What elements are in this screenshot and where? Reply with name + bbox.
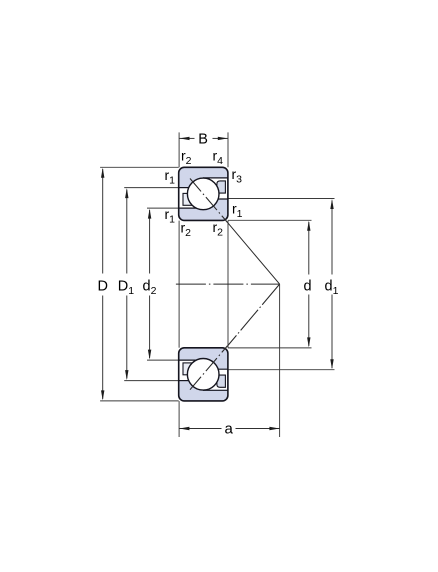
- B extension line right (upper): [227, 132, 229, 167]
- D1 extension line top: [124, 187, 179, 189]
- d dimension line: [308, 222, 310, 275]
- D extension line top: [100, 166, 179, 168]
- B extension line left (upper): [178, 132, 180, 167]
- a dimension line: [179, 428, 221, 430]
- D1 arrows: [125, 188, 128, 198]
- left face extension line between bearings: [178, 221, 180, 348]
- right face extension line between bearings: [227, 221, 229, 348]
- bottom contact line: apex to lower bearing (dash-dot): [228, 284, 280, 345]
- B dimension line: [179, 137, 194, 139]
- D dimension line: [102, 169, 104, 274]
- apex extension line down to a dim: [279, 284, 281, 437]
- d2 extension line bottom: [147, 359, 179, 361]
- d extension line bottom: [228, 347, 312, 349]
- D arrows: [101, 168, 104, 178]
- d2 arrows: [148, 209, 151, 219]
- D1 extension line bottom: [124, 380, 179, 382]
- svg-text:D: D: [98, 278, 108, 294]
- svg-text:a: a: [225, 421, 234, 438]
- top contact line: box corner to apex (solid): [228, 223, 280, 285]
- d extension line top: [228, 219, 312, 221]
- d1 dimension line: [331, 201, 333, 275]
- d2 extension line top: [147, 207, 179, 209]
- d1 extension line bottom: [228, 369, 335, 371]
- B arrows: [180, 137, 190, 140]
- d arrows: [307, 221, 310, 231]
- a arrows: [179, 427, 189, 430]
- left face extension line below bottom bearing (a dim): [178, 401, 180, 437]
- svg-text:d: d: [304, 278, 312, 294]
- d1 arrows: [330, 199, 333, 209]
- svg-text:B: B: [198, 131, 208, 147]
- d1 extension line top: [228, 198, 335, 200]
- D extension line bottom: [100, 400, 179, 402]
- d2 dimension line: [149, 210, 151, 274]
- D1 dimension line: [126, 190, 128, 274]
